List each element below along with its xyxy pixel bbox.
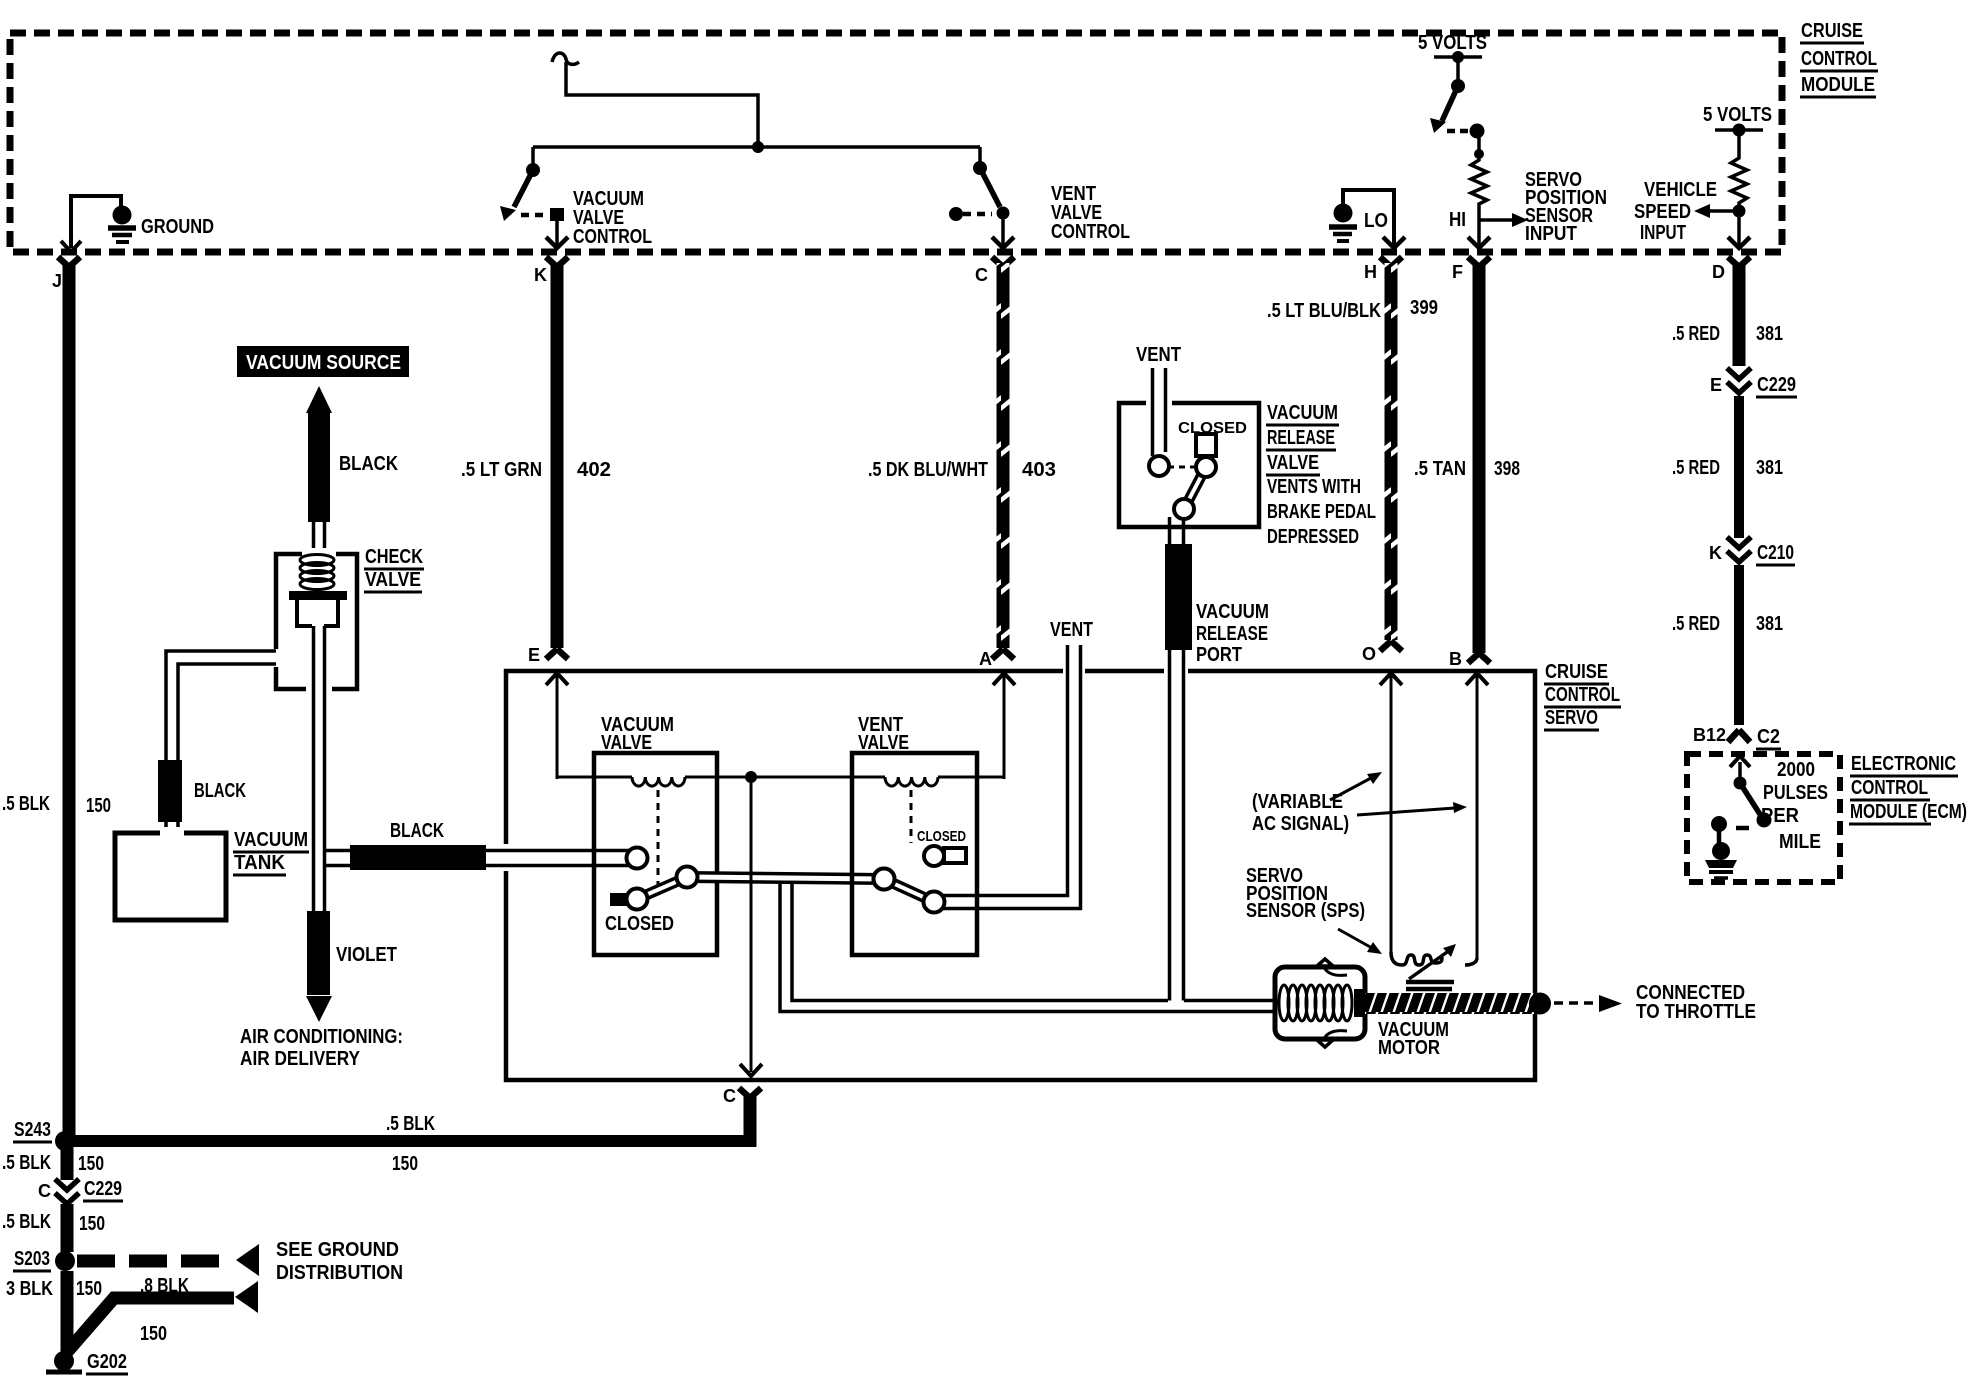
svg-text:C: C — [38, 1181, 51, 1201]
wire: switch feed with squiggle — [533, 53, 980, 147]
svg-text:K: K — [1709, 543, 1722, 563]
dashed link to throttle — [1554, 995, 1622, 1012]
vacuum valve seat bar — [610, 893, 638, 906]
vacuum valve box — [594, 753, 717, 955]
svg-text:150: 150 — [86, 795, 111, 817]
svg-text:RELEASE: RELEASE — [1196, 623, 1268, 645]
vacuum motor spring — [1279, 985, 1365, 1021]
svg-text:G202: G202 — [87, 1351, 127, 1373]
vent valve solenoid coil — [885, 777, 938, 786]
svg-text:.5 BLK: .5 BLK — [2, 1152, 51, 1174]
label .5 RED 381 (upper) — [1672, 323, 1783, 345]
svg-text:C: C — [723, 1086, 736, 1106]
svg-text:.5 RED: .5 RED — [1672, 613, 1720, 635]
svg-text:VIOLET: VIOLET — [336, 944, 397, 966]
servo terminal A arrow — [979, 649, 1015, 779]
svg-text:403: 403 — [1022, 459, 1056, 481]
svg-text:381: 381 — [1756, 323, 1783, 345]
callout arrow to SPS — [1338, 929, 1382, 954]
svg-text:C229: C229 — [84, 1178, 122, 1200]
svg-text:SPEED: SPEED — [1634, 201, 1691, 223]
svg-text:SERVO: SERVO — [1545, 707, 1598, 729]
tube: check valve to vacuum tank — [166, 651, 276, 760]
label CONNECTED TO THROTTLE — [1636, 982, 1756, 1023]
connector pin D / wire 381 — [1712, 257, 1750, 366]
svg-text:D: D — [1712, 262, 1725, 282]
label VACUUM TANK — [233, 829, 309, 875]
vent valve linkage — [874, 869, 945, 913]
svg-text:MODULE: MODULE — [1801, 74, 1875, 96]
svg-text:DEPRESSED: DEPRESSED — [1267, 526, 1359, 548]
svg-text:VENT: VENT — [1136, 344, 1181, 366]
svg-text:C229: C229 — [1757, 374, 1796, 396]
label CRUISE CONTROL MODULE — [1800, 20, 1878, 97]
svg-text:H: H — [1364, 262, 1377, 282]
svg-text:A: A — [979, 649, 992, 669]
black hose segment (tank) — [158, 760, 182, 822]
svg-text:RELEASE: RELEASE — [1267, 427, 1335, 449]
callout arrow to O line — [1330, 772, 1382, 800]
connector pin F / wire 398 — [1452, 257, 1490, 663]
black hose segment (vacuum source) — [308, 413, 330, 522]
svg-text:MODULE (ECM): MODULE (ECM) — [1850, 801, 1967, 823]
svg-text:(VARIABLE: (VARIABLE — [1252, 791, 1343, 813]
connector pin H / wire 399 (hatched) — [1364, 257, 1402, 651]
svg-text:AC SIGNAL): AC SIGNAL) — [1252, 813, 1349, 835]
svg-text:BRAKE PEDAL: BRAKE PEDAL — [1267, 501, 1376, 523]
arrow down to air delivery — [306, 996, 332, 1022]
svg-text:VACUUM: VACUUM — [1267, 402, 1338, 424]
svg-text:.5 BLK: .5 BLK — [2, 1211, 51, 1233]
svg-text:INPUT: INPUT — [1525, 223, 1577, 245]
svg-text:BLACK: BLACK — [339, 453, 398, 475]
wire .8 BLK to ground distribution — [67, 1281, 258, 1352]
svg-text:VALVE: VALVE — [858, 732, 909, 754]
label VACUUM VALVE (servo) — [601, 714, 674, 754]
svg-text:VALVE: VALVE — [1267, 452, 1319, 474]
svg-text:SENSOR (SPS): SENSOR (SPS) — [1246, 900, 1365, 922]
5 volts supply (vehicle speed) — [1703, 104, 1772, 137]
svg-text:.5 TAN: .5 TAN — [1414, 458, 1466, 480]
svg-text:150: 150 — [79, 1213, 105, 1235]
svg-text:CONTROL: CONTROL — [1801, 48, 1877, 70]
svg-text:CONTROL: CONTROL — [573, 226, 652, 248]
switch: vacuum valve control — [500, 147, 568, 248]
svg-text:.5 DK BLU/WHT: .5 DK BLU/WHT — [868, 459, 988, 481]
svg-text:VALVE: VALVE — [601, 732, 652, 754]
5 volts supply (HI side) — [1418, 32, 1487, 139]
splice S203 — [13, 1248, 75, 1271]
check valve body — [270, 548, 357, 694]
svg-text:VACUUM SOURCE: VACUUM SOURCE — [246, 352, 401, 374]
svg-text:.5 BLK: .5 BLK — [2, 793, 50, 815]
svg-text:.5 BLK: .5 BLK — [386, 1113, 435, 1135]
label 2000 PULSES PER MILE — [1761, 759, 1828, 853]
tube from hose to check valve — [314, 522, 325, 556]
label VACUUM MOTOR — [1378, 1019, 1449, 1059]
svg-text:CONTROL: CONTROL — [1051, 221, 1130, 243]
svg-text:150: 150 — [78, 1153, 104, 1175]
vacuum tank — [115, 827, 226, 920]
callout arrow to B line — [1357, 802, 1467, 815]
tube into tank — [166, 822, 178, 833]
vacuum valve armature dashed link — [657, 790, 660, 886]
dashed wire to ground distribution — [77, 1244, 259, 1276]
svg-text:VENTS WITH: VENTS WITH — [1267, 476, 1361, 498]
svg-text:150: 150 — [392, 1153, 418, 1175]
resistor (servo position sensor pull-up) — [1471, 131, 1487, 221]
svg-text:PULSES: PULSES — [1763, 782, 1828, 804]
label SERVO POSITION SENSOR (SPS) — [1246, 865, 1365, 922]
label .5 DK BLU/WHT 403 — [868, 459, 1056, 481]
svg-text:GROUND: GROUND — [141, 216, 214, 238]
junction node (coil wire) — [745, 771, 757, 783]
svg-text:O: O — [1362, 644, 1376, 664]
label .5 LT GRN 402 — [461, 459, 611, 481]
wire segment S203 to G202 — [61, 1271, 74, 1354]
servo terminal E arrow — [528, 645, 568, 779]
ground G202 — [46, 1351, 128, 1374]
connector pin C / wire 403 (hatched) — [975, 257, 1014, 659]
svg-text:CRUISE: CRUISE — [1801, 20, 1863, 42]
label .5 BLK 150 (J wire) — [2, 793, 111, 817]
vent tube from vent valve up to VENT — [943, 645, 1081, 909]
ECM internal speed sensor switch — [1711, 756, 1772, 832]
label AIR CONDITIONING: AIR DELIVERY — [240, 1026, 403, 1070]
label (VARIABLE AC SIGNAL) — [1252, 791, 1349, 835]
svg-text:398: 398 — [1494, 458, 1520, 480]
label .5 BLK 150 (left, lower) — [2, 1211, 105, 1235]
svg-text:150: 150 — [140, 1323, 167, 1345]
servo position sensor element — [1391, 944, 1477, 989]
svg-text:B: B — [1449, 649, 1462, 669]
label VENT VALVE CONTROL — [1051, 183, 1130, 243]
svg-text:402: 402 — [577, 459, 611, 481]
vacuum release valve box — [1119, 397, 1259, 527]
wire: junction to servo terminal C — [740, 783, 762, 1076]
connector pin K / wire 402 — [534, 257, 568, 659]
tube: actuator down to motor feed — [780, 884, 1275, 1012]
svg-text:S243: S243 — [14, 1119, 51, 1141]
servo terminal O arrow and sensor line — [1362, 644, 1402, 952]
svg-text:HI: HI — [1449, 209, 1466, 231]
vacuum valve solenoid coil — [632, 777, 685, 786]
svg-text:INPUT: INPUT — [1640, 222, 1686, 244]
svg-text:381: 381 — [1756, 457, 1783, 479]
svg-text:B12: B12 — [1693, 725, 1726, 745]
tube: check valve down to violet hose — [314, 626, 325, 911]
wire segment C229 to S203 — [61, 1204, 74, 1252]
ECM ground symbol — [1705, 830, 1737, 878]
vacuum valve inlet circle — [627, 848, 648, 869]
wire 381 lower segment — [1672, 565, 1783, 749]
electronic control module (ECM) dashed box — [1687, 754, 1840, 882]
svg-text:.5 LT GRN: .5 LT GRN — [461, 459, 542, 481]
svg-text:E: E — [1710, 375, 1722, 395]
vacuum valve linkage — [627, 867, 895, 910]
servo terminal C pin — [723, 1086, 761, 1147]
label SERVO POSITION SENSOR INPUT — [1525, 169, 1607, 245]
check valve plate — [289, 591, 347, 600]
vent valve seat — [924, 846, 966, 866]
violet hose segment — [307, 911, 330, 995]
svg-text:399: 399 — [1410, 297, 1438, 319]
svg-text:BLACK: BLACK — [194, 780, 246, 802]
svg-text:K: K — [534, 265, 547, 285]
release valve seat rectangle — [1196, 434, 1216, 456]
LO ground symbol — [1329, 204, 1357, 242]
svg-text:VACUUM: VACUUM — [1196, 601, 1269, 623]
wire: E to A through solenoid coils — [557, 776, 1004, 779]
svg-text:MILE: MILE — [1779, 831, 1821, 853]
connector C229 (ground chain) — [38, 1178, 123, 1204]
svg-text:LO: LO — [1364, 210, 1388, 232]
servo terminal B arrow and sensor line — [1449, 649, 1488, 958]
wire: S243 to servo terminal C (.5 BLK 150) — [65, 1113, 756, 1175]
F terminal arrow — [1468, 221, 1490, 248]
vacuum source arrow up — [306, 386, 332, 413]
switch: vent valve control — [949, 147, 1014, 248]
splice S243 — [13, 1119, 75, 1151]
svg-text:C: C — [975, 265, 988, 285]
svg-text:DISTRIBUTION: DISTRIBUTION — [276, 1262, 403, 1284]
svg-text:CLOSED: CLOSED — [605, 913, 674, 935]
svg-text:SEE GROUND: SEE GROUND — [276, 1239, 399, 1261]
label .5 LT BLU/BLK 399 — [1267, 297, 1438, 322]
connector C229 (right chain) — [1710, 368, 1797, 397]
vent tube into release valve — [1153, 368, 1166, 456]
connector pin J — [52, 257, 80, 1143]
wire: junction to C (over rod) — [750, 783, 753, 1060]
wire 381 middle segment — [1672, 396, 1783, 538]
check valve spring — [300, 555, 334, 590]
svg-text:381: 381 — [1756, 613, 1783, 635]
arrow to servo position sensor input — [1479, 213, 1528, 227]
svg-text:MOTOR: MOTOR — [1378, 1037, 1440, 1059]
svg-text:AIR CONDITIONING:: AIR CONDITIONING: — [240, 1026, 403, 1048]
tube: servo feed (right part) into vacuum valve — [486, 851, 629, 866]
label ELECTRONIC CONTROL MODULE (ECM) — [1849, 753, 1967, 824]
label VEHICLE SPEED INPUT — [1634, 179, 1717, 244]
svg-text:.5 LT BLU/BLK: .5 LT BLU/BLK — [1267, 300, 1381, 322]
label VACUUM RELEASE VALVE VENTS WITH BRAKE PEDAL DEPRESSED — [1266, 402, 1376, 548]
svg-text:J: J — [52, 271, 62, 291]
label VACUUM VALVE CONTROL — [573, 188, 652, 248]
svg-text:CONTROL: CONTROL — [1851, 777, 1928, 799]
svg-text:C210: C210 — [1757, 542, 1794, 564]
svg-text:S203: S203 — [14, 1248, 50, 1270]
svg-text:AIR DELIVERY: AIR DELIVERY — [240, 1048, 361, 1070]
svg-text:CLOSED: CLOSED — [917, 828, 966, 845]
svg-text:3 BLK: 3 BLK — [6, 1278, 53, 1300]
vacuum release port tube — [1170, 517, 1184, 1001]
svg-text:E: E — [528, 645, 540, 665]
resistor (vehicle speed input) — [1731, 130, 1747, 218]
svg-text:VENT: VENT — [1050, 619, 1093, 641]
svg-text:.5 RED: .5 RED — [1672, 323, 1720, 345]
svg-text:.5 RED: .5 RED — [1672, 457, 1720, 479]
svg-text:CHECK: CHECK — [365, 546, 423, 568]
release valve dashed link — [1168, 466, 1196, 469]
labels 3 BLK 150 .8 BLK — [6, 1275, 189, 1300]
vacuum motor body — [1275, 959, 1365, 1047]
junction node — [752, 141, 764, 153]
svg-text:F: F — [1452, 262, 1463, 282]
label VACUUM RELEASE PORT — [1196, 601, 1269, 666]
svg-text:C2: C2 — [1757, 726, 1780, 748]
ground symbol (module) — [108, 206, 136, 243]
svg-text:5 VOLTS: 5 VOLTS — [1418, 32, 1487, 54]
label CRUISE CONTROL SERVO — [1544, 661, 1621, 730]
D terminal arrow — [1728, 217, 1750, 248]
label VENT VALVE (servo) — [858, 714, 909, 754]
svg-text:VALVE: VALVE — [365, 569, 421, 591]
release port hose segment — [1165, 544, 1192, 650]
connector C210 — [1709, 537, 1795, 565]
svg-text:PORT: PORT — [1196, 644, 1242, 666]
svg-text:CONTROL: CONTROL — [1545, 684, 1620, 706]
svg-text:PER: PER — [1761, 805, 1800, 827]
svg-text:TANK: TANK — [234, 852, 286, 874]
svg-text:2000: 2000 — [1777, 759, 1815, 781]
label .5 BLK 150 (left, upper) — [2, 1152, 104, 1175]
black hose segment (servo feed) — [350, 845, 486, 870]
tube: tee to servo (left part) — [324, 851, 350, 866]
vacuum source label (inverted) — [237, 346, 409, 377]
vent valve box — [852, 753, 977, 955]
svg-text:150: 150 — [76, 1278, 102, 1300]
svg-text:TO THROTTLE: TO THROTTLE — [1636, 1001, 1756, 1023]
wire segment S243 to C229 — [61, 1147, 74, 1180]
label CHECK VALVE — [364, 546, 424, 592]
label SEE GROUND DISTRIBUTION — [276, 1239, 403, 1284]
wire: LO to H terminal — [1343, 190, 1405, 248]
svg-text:5 VOLTS: 5 VOLTS — [1703, 104, 1772, 126]
vent valve armature dashed link — [910, 790, 913, 843]
cruise control module dashed border — [10, 33, 1782, 252]
cruise control servo box — [501, 666, 1535, 1080]
wire: J pin to module ground — [61, 196, 121, 252]
svg-text:VACUUM: VACUUM — [234, 829, 308, 851]
vacuum motor shaft (hatched) — [1365, 993, 1551, 1015]
svg-text:BLACK: BLACK — [390, 820, 444, 842]
check valve cup — [297, 600, 338, 626]
svg-text:CRUISE: CRUISE — [1545, 661, 1608, 683]
release valve linkage — [1149, 456, 1216, 519]
svg-text:VEHICLE: VEHICLE — [1644, 179, 1717, 201]
label .5 TAN 398 — [1414, 458, 1520, 480]
svg-text:ELECTRONIC: ELECTRONIC — [1851, 753, 1956, 775]
arrow to vehicle speed input — [1694, 204, 1739, 218]
